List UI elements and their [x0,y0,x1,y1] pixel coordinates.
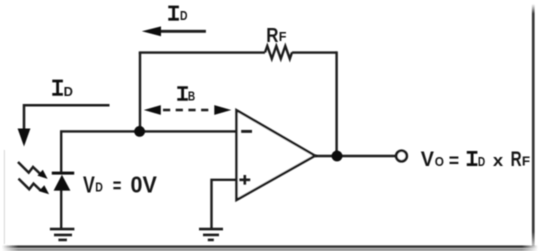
svg-text:=: = [113,175,122,197]
op-amp U1 [237,110,316,200]
label IB [177,86,195,103]
wire inverting input net [61,131,236,172]
label ID (top) [168,6,187,23]
svg-text:V: V [83,171,95,197]
svg-text:R: R [511,148,522,171]
label VD = 0V [83,171,157,197]
current arrow IB (dashed, double-headed) [144,105,232,115]
photodiode D1 [52,172,74,191]
resistor RF [265,46,292,59]
wire feedback loop left vertical [139,53,141,132]
svg-text:D: D [64,85,73,99]
svg-text:D: D [180,9,188,23]
wire feedback top horizontal left of RF [139,51,265,53]
svg-text:D: D [478,155,485,169]
svg-text:F: F [522,155,531,169]
wire feedback top horizontal right of RF [292,51,337,53]
border shadow bottom [2,245,538,248]
wire output [315,155,397,157]
node junction dot (inverting input) [134,126,145,137]
label VO = ID x RF [421,148,531,172]
label RF (resistor) [266,24,286,47]
svg-text:B: B [188,89,195,103]
ground (op-amp + input) [199,229,223,240]
svg-text:R: R [266,24,278,47]
photodiode light arrow lower [19,179,50,195]
photodiode light arrow upper [18,162,48,179]
label ID (left) [52,80,73,100]
current arrow ID (top, pointing left) [142,26,206,36]
op-amp plus sign [239,175,250,185]
current arrow ID (left, down) [18,105,110,146]
svg-text:F: F [279,29,287,44]
wire non-inverting input [212,180,237,229]
op-amp minus sign [241,130,252,133]
svg-text:0V: 0V [131,171,158,197]
output terminal circle [396,151,407,162]
node junction dot (output) [332,151,343,162]
border shadow left (faint) [4,150,5,244]
wire feedback right vertical [335,51,337,156]
ground (photodiode) [50,229,75,240]
svg-text:O: O [435,155,444,169]
svg-text:V: V [421,148,434,171]
svg-text:x: x [493,151,504,170]
svg-text:D: D [95,180,103,195]
wire photodiode cathode to ground [60,190,62,230]
border shadow right [532,4,535,246]
svg-text:=: = [449,151,459,172]
